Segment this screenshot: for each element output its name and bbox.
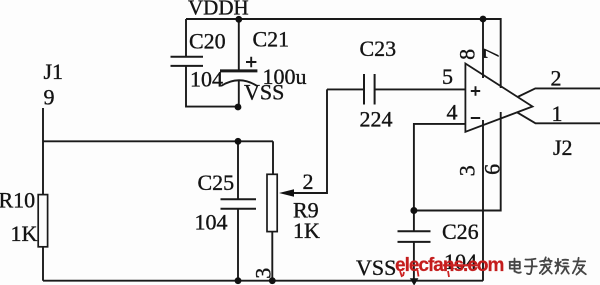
svg-text:104: 104 <box>190 67 223 92</box>
svg-text:C26: C26 <box>442 219 479 244</box>
svg-text:C23: C23 <box>360 36 397 61</box>
svg-text:VDDH: VDDH <box>188 0 249 19</box>
svg-text:R10: R10 <box>0 188 35 213</box>
svg-text:1K: 1K <box>11 221 38 246</box>
svg-text:7: 7 <box>479 48 504 59</box>
svg-text:C25: C25 <box>198 170 235 195</box>
svg-text:1K: 1K <box>293 218 320 243</box>
svg-text:VSS: VSS <box>356 255 396 280</box>
svg-text:2: 2 <box>551 66 562 91</box>
svg-text:3: 3 <box>455 165 480 176</box>
svg-text:6: 6 <box>480 164 505 175</box>
svg-text:2: 2 <box>303 169 314 194</box>
svg-text:J1: J1 <box>44 59 64 84</box>
svg-text:VSS: VSS <box>244 79 284 104</box>
svg-text:3: 3 <box>251 268 276 279</box>
svg-text:1: 1 <box>552 101 563 126</box>
svg-text:5: 5 <box>442 64 453 89</box>
svg-text:104: 104 <box>195 210 228 235</box>
svg-text:4: 4 <box>447 99 458 124</box>
svg-text:C21: C21 <box>253 27 290 52</box>
svg-text:224: 224 <box>360 106 393 131</box>
svg-text:C20: C20 <box>189 29 226 54</box>
svg-text:9: 9 <box>44 85 55 110</box>
svg-text:J2: J2 <box>553 135 573 160</box>
svg-text:8: 8 <box>454 49 479 60</box>
